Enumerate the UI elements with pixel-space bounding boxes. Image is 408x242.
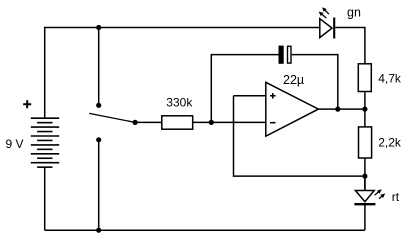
resistor R1 330k xyxy=(162,116,193,129)
svg-text:2,2k: 2,2k xyxy=(378,136,402,150)
wire switch to R1 xyxy=(135,121,162,123)
wire op-amp output xyxy=(318,108,365,110)
node A junction xyxy=(209,120,214,125)
resistor R2 4,7k xyxy=(358,64,371,92)
node divider junction xyxy=(362,174,367,179)
wire R2 to output node xyxy=(364,92,366,110)
switch S1 xyxy=(89,103,138,143)
wire switch feed vertical xyxy=(98,28,100,104)
node bottom rail junction xyxy=(96,228,101,233)
wire node A to capacitor xyxy=(211,55,278,123)
label op-amp plus input xyxy=(270,93,276,99)
resistor R3 2,2k xyxy=(359,127,372,158)
svg-text:9 V: 9 V xyxy=(6,137,24,151)
LED D1 gn xyxy=(319,7,335,38)
label op-amp minus input xyxy=(270,122,276,124)
svg-text:330k: 330k xyxy=(166,96,193,110)
wire top rail and left rail xyxy=(45,28,320,119)
node top rail junction xyxy=(96,25,101,30)
svg-text:gn: gn xyxy=(347,6,361,20)
capacitor C1 22u xyxy=(279,46,292,64)
svg-text:4,7k: 4,7k xyxy=(378,72,402,86)
svg-text:22µ: 22µ xyxy=(283,73,304,87)
wire left rail bottom xyxy=(44,167,46,230)
label battery plus xyxy=(23,100,31,108)
wire R3 to divider node xyxy=(364,158,366,191)
wire bottom rail xyxy=(45,229,365,231)
wire capacitor to output node xyxy=(292,55,338,110)
LED D2 rt xyxy=(354,189,385,204)
battery B1 9V xyxy=(31,118,59,167)
wire reference loop xyxy=(234,96,365,176)
wire red LED to bottom rail xyxy=(364,204,366,230)
wire output node to R3 xyxy=(364,109,366,127)
wire non-inverting input xyxy=(234,95,266,97)
wire LED gn cathode to R2 xyxy=(335,28,365,64)
wire R1 to inverting input xyxy=(193,121,266,123)
wire switch bottom vertical xyxy=(98,140,100,230)
node output-divider junction xyxy=(362,107,367,112)
svg-text:rt: rt xyxy=(392,190,400,204)
wire divider node to red LED xyxy=(364,176,366,190)
node output-capacitor junction xyxy=(335,107,340,112)
op-amp U1 xyxy=(266,82,319,136)
